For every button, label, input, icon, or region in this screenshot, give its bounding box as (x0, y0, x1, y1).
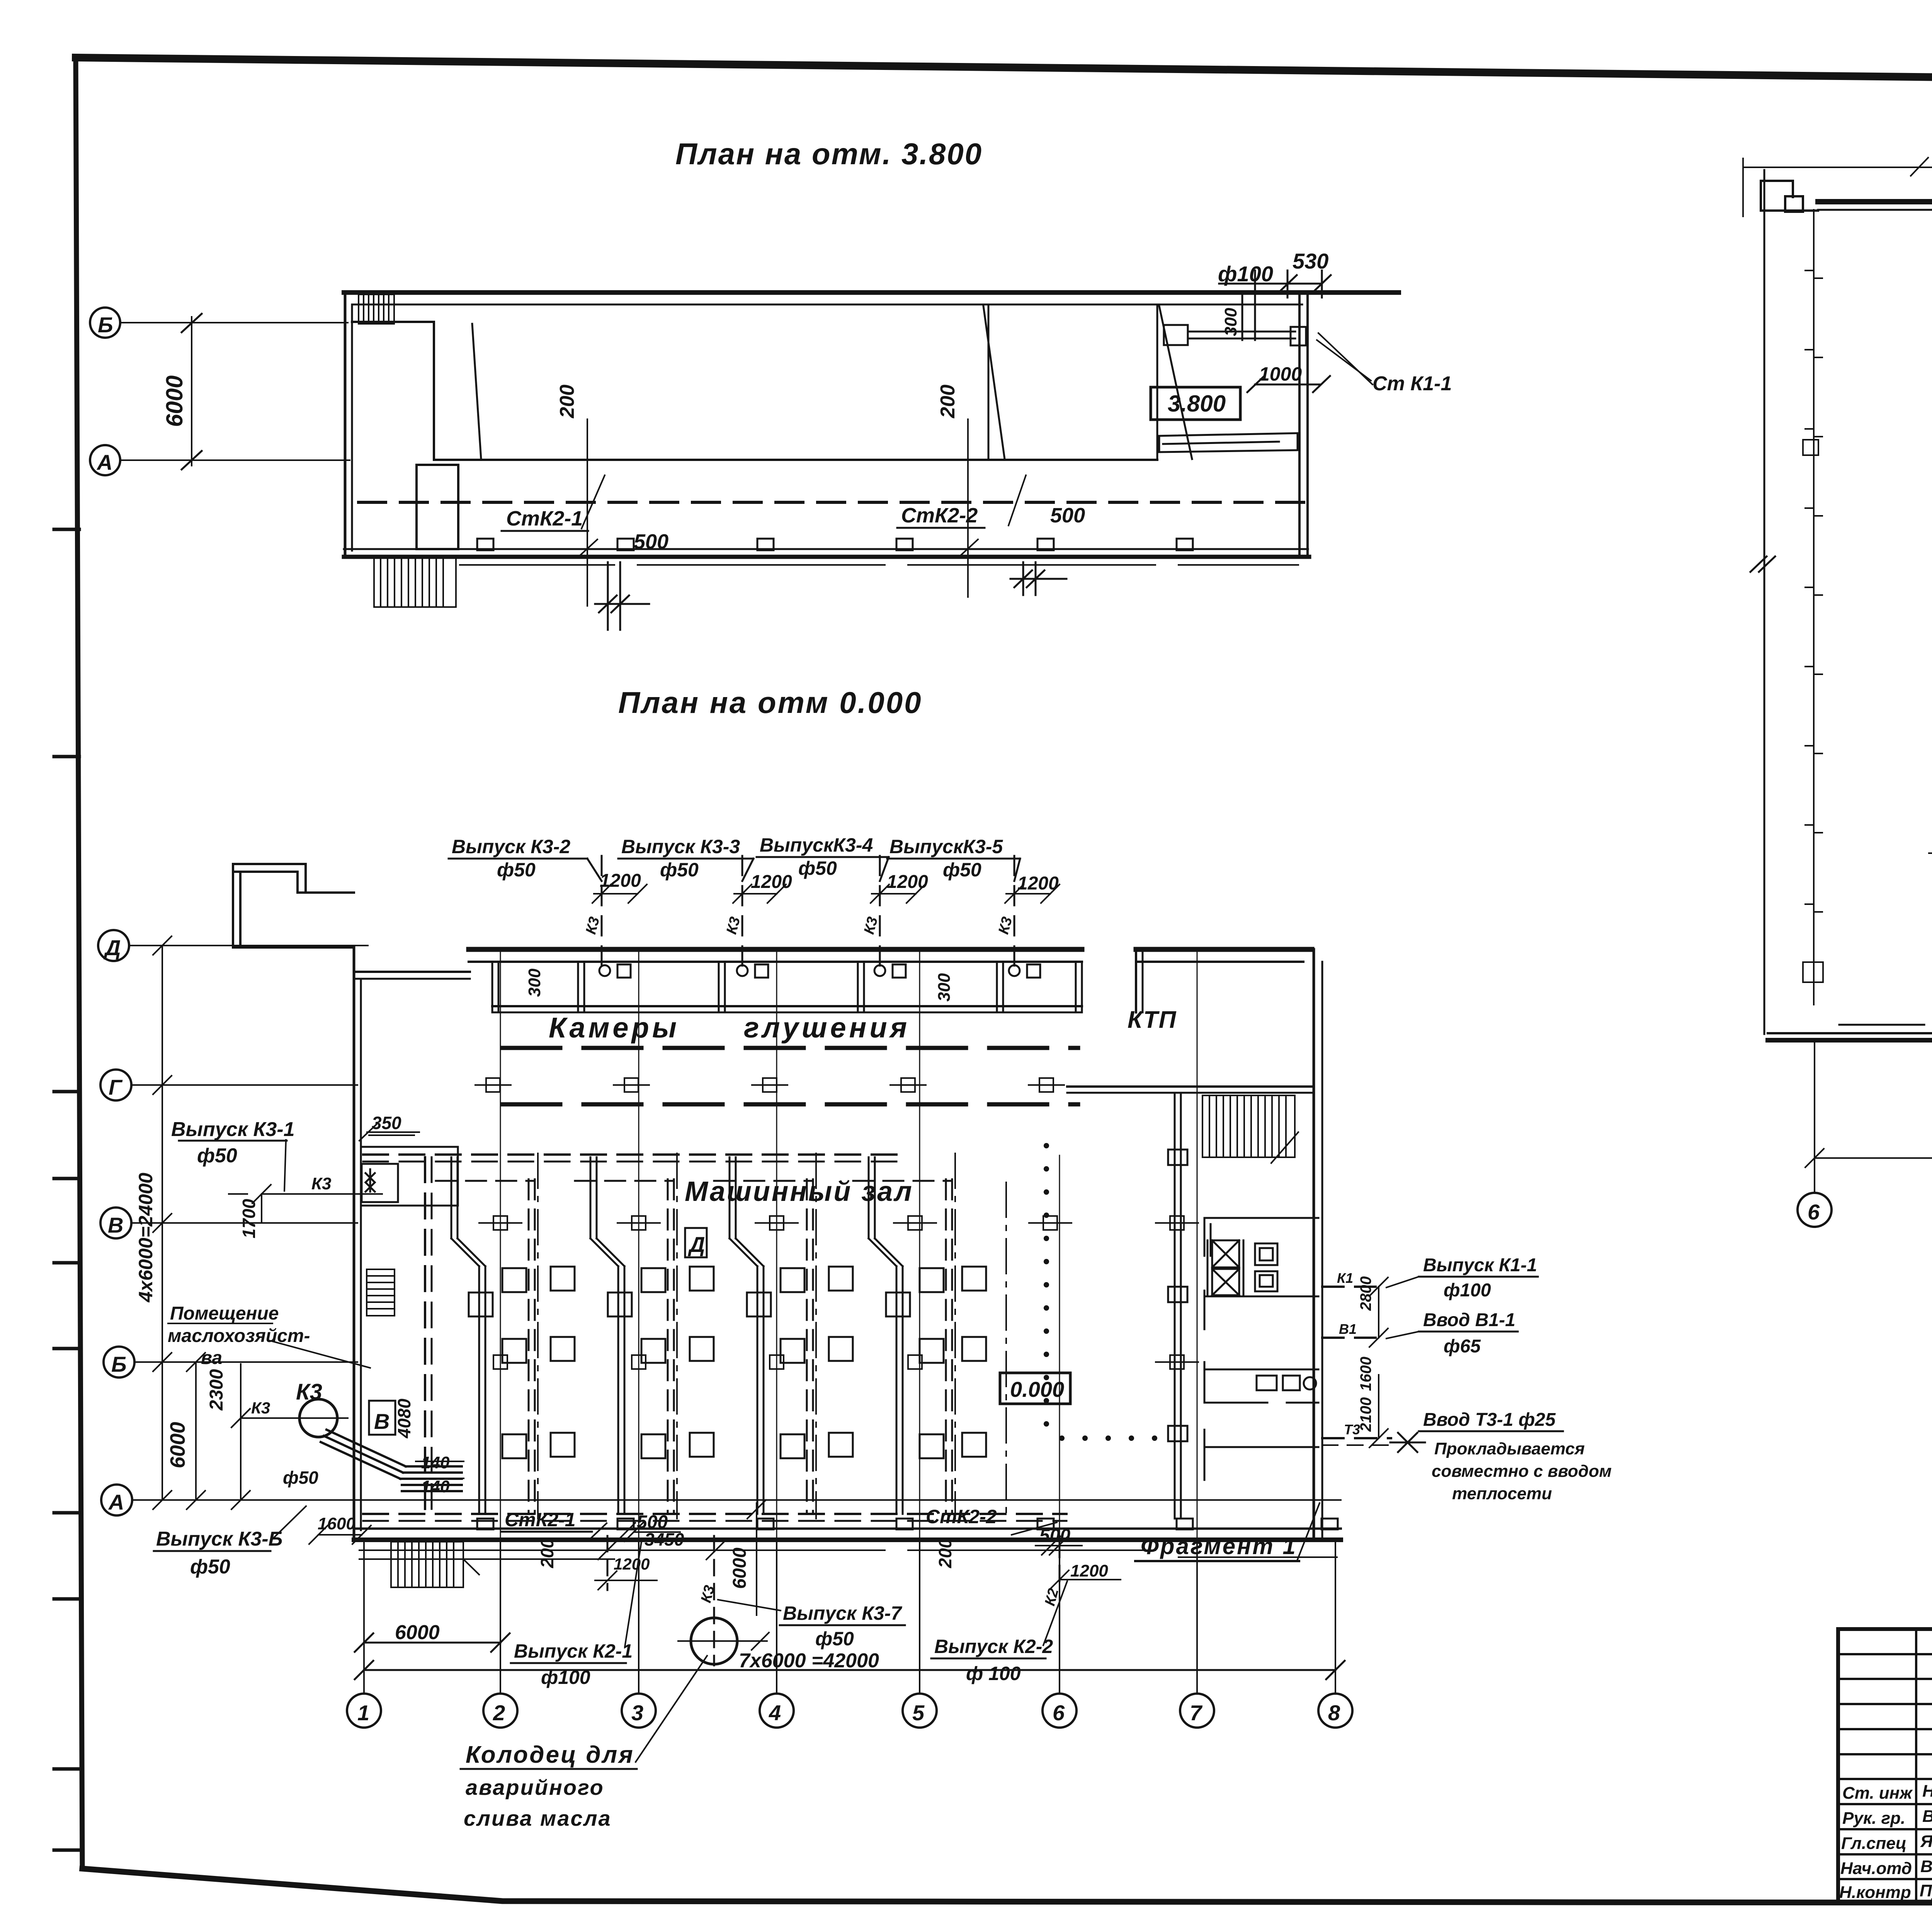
silencer dashes row1 (502, 1046, 1078, 1050)
svg-text:Камеры: Камеры (549, 1012, 680, 1044)
dim marks right of KTP (1369, 1277, 1388, 1447)
svg-text:Выпуск К3-1: Выпуск К3-1 (171, 1118, 295, 1141)
silencer dashes row2 (502, 1102, 1078, 1107)
svg-text:200: 200 (537, 1538, 557, 1568)
wall left (344, 293, 347, 556)
chamber partitions (492, 962, 1082, 1012)
oil room walls (361, 1147, 458, 1206)
svg-text:СтК2-1: СтК2-1 (505, 1509, 576, 1531)
svg-text:ВыпускК3-5: ВыпускК3-5 (889, 836, 1003, 857)
dim 500 no1 (595, 562, 649, 630)
footing strip (359, 1550, 1337, 1559)
axis lines through hall 2-7 (500, 951, 1197, 1540)
underline vypusk K3-B (154, 1550, 270, 1552)
svg-text:ф50: ф50 (815, 1628, 854, 1650)
svg-text:ф100: ф100 (1444, 1280, 1491, 1301)
dim ticks 1200 top row (592, 884, 1060, 903)
leader vypusk K3-B (272, 1506, 306, 1539)
inner wall horizontal (434, 459, 1157, 461)
texts title block (1839, 1503, 1932, 1932)
svg-text:1200: 1200 (600, 871, 641, 891)
chambers inner wall (492, 1005, 1082, 1007)
svg-text:530: 530 (1293, 249, 1328, 273)
unit centrelines dash-dot (538, 1153, 1006, 1519)
underline СтК2-2 (897, 527, 985, 529)
column marks axis В (479, 1216, 1198, 1230)
dashed centre line (359, 501, 1305, 504)
bottom wall columns (477, 1519, 1338, 1529)
svg-text:Колодец для: Колодец для (466, 1742, 634, 1768)
svg-text:1700: 1700 (239, 1199, 259, 1238)
label box Д (685, 1228, 707, 1257)
svg-text:Помещение: Помещение (170, 1303, 279, 1324)
compressor unit 4 outline (869, 1157, 903, 1514)
dim 1200 bottom small (595, 1571, 657, 1590)
svg-text:Ясиновский: Ясиновский (1920, 1832, 1932, 1851)
dim line 7x6000=42000 (355, 1661, 1345, 1679)
vent duct long (1159, 433, 1298, 452)
left wall outer (354, 947, 354, 1540)
svg-text:Рук. гр.: Рук. гр. (1842, 1809, 1905, 1828)
column marks axis Б (493, 1355, 1198, 1369)
wall right (1298, 294, 1301, 557)
machine hall top dashed wall (363, 1153, 896, 1156)
dim line 6000 vertical (191, 317, 192, 466)
K3 axis line (231, 1409, 348, 1427)
foundation pad squares unit2 (608, 1267, 714, 1458)
underline StK2-1 bottom (501, 1531, 592, 1533)
svg-text:ф 100: ф 100 (966, 1663, 1021, 1684)
svg-text:Пундиков: Пундиков (1920, 1881, 1932, 1900)
svg-text:Ст К1-1: Ст К1-1 (1372, 372, 1452, 395)
label box В (369, 1401, 395, 1435)
underline vypusk K3-7 (780, 1624, 905, 1626)
svg-text:К3: К3 (296, 1379, 322, 1405)
riser K2-2 dashed (1059, 1542, 1061, 1588)
chambers top wall (469, 947, 1082, 952)
svg-text:Гл.спец: Гл.спец (1841, 1834, 1906, 1853)
svg-text:1200: 1200 (1070, 1561, 1108, 1580)
axis circle Б (104, 1347, 134, 1378)
bottom wall А outer (354, 1527, 1341, 1530)
bottom axis circles 1-8 (347, 1694, 1352, 1728)
axis line А (120, 459, 350, 461)
texts plan0000 (104, 685, 1612, 1830)
svg-text:500: 500 (634, 530, 668, 553)
dim 1200 right (1050, 1570, 1121, 1589)
axis circle В (100, 1207, 131, 1238)
leader StK2-1 (590, 1523, 607, 1539)
svg-text:6000: 6000 (166, 1422, 189, 1468)
underline fragment1 (1135, 1560, 1299, 1562)
top dimension line (1743, 158, 1932, 216)
leader fragment1 (1298, 1503, 1320, 1560)
B1 dashed stub right (1322, 1337, 1376, 1339)
svg-text:ф50: ф50 (197, 1145, 237, 1167)
elevation box 3.800 (1151, 387, 1240, 420)
svg-text:4080: 4080 (394, 1398, 414, 1439)
unit foundation dashed outlines (436, 1179, 952, 1514)
T3 dashed stub right (1322, 1437, 1391, 1439)
svg-text:6: 6 (1808, 1200, 1820, 1224)
svg-text:1000: 1000 (1259, 363, 1302, 385)
svg-text:Фрагмент 1: Фрагмент 1 (1141, 1533, 1297, 1559)
break line diagonal 3 (1159, 306, 1192, 459)
svg-text:ф100: ф100 (1218, 262, 1273, 286)
svg-text:Ввод Т3-1 ф25: Ввод Т3-1 ф25 (1423, 1410, 1556, 1430)
break line diagonal 1 (472, 324, 481, 459)
dim line 6000 + 2300 verticals left (187, 1353, 250, 1509)
svg-text:500: 500 (1039, 1526, 1070, 1546)
svg-text:маслохозяйст-: маслохозяйст- (168, 1326, 310, 1346)
foundation pad squares unit4 (886, 1267, 986, 1458)
bottom wall fragment (1768, 1032, 1932, 1034)
stems to circles (1815, 1043, 1932, 1193)
axis line Г (131, 1084, 357, 1086)
svg-text:Т3: Т3 (1344, 1422, 1360, 1437)
compressor unit 3 outline (730, 1157, 764, 1514)
svg-text:КТП: КТП (1128, 1007, 1177, 1033)
leader СтК1-1 (1317, 340, 1371, 381)
svg-text:140: 140 (421, 1477, 450, 1496)
top-left protrusion (233, 864, 354, 947)
svg-text:2300: 2300 (206, 1369, 227, 1411)
top-left corner detail (1761, 181, 1818, 212)
underline vypusk K2-1 (511, 1662, 626, 1664)
svg-text:1200: 1200 (614, 1555, 650, 1573)
axis line А long (132, 1499, 1341, 1501)
svg-text:6000: 6000 (162, 376, 187, 427)
axis line Б (120, 322, 348, 323)
svg-text:ва: ва (201, 1348, 222, 1368)
bottom wall columns (477, 539, 1193, 550)
svg-text:Волыков: Волыков (1922, 1807, 1932, 1826)
KTP stairs (1202, 1095, 1298, 1163)
left outer wall with ticks (1803, 210, 1823, 1005)
K3 manhole circle (299, 1399, 337, 1437)
dim 3450 (598, 1541, 725, 1560)
axis circle Д (98, 930, 129, 961)
left wall break mark (1750, 556, 1767, 572)
texts fragment (1808, 117, 1932, 1224)
svg-text:Выпуск К2-1: Выпуск К2-1 (514, 1640, 633, 1662)
underline vvod T3-1 right (1419, 1430, 1563, 1432)
svg-text:6000: 6000 (395, 1621, 440, 1644)
svg-text:5: 5 (912, 1701, 925, 1725)
vert dim 6000 near manhole (747, 1500, 766, 1615)
stamp outer (1838, 1629, 1932, 1902)
svg-text:6000: 6000 (730, 1548, 750, 1589)
svg-text:слива масла: слива масла (464, 1806, 612, 1830)
underline teplovoy (1929, 852, 1932, 854)
column marks axis Г (475, 1078, 1064, 1092)
stamp left grid (1838, 1629, 1932, 1902)
svg-text:300: 300 (935, 973, 954, 1002)
svg-text:План на отм. 3.800: План на отм. 3.800 (675, 137, 983, 171)
svg-text:Нач.отд: Нач.отд (1840, 1859, 1912, 1878)
dotted pipe line vertical (1044, 1143, 1157, 1441)
svg-text:6: 6 (1053, 1701, 1065, 1725)
svg-text:500: 500 (1050, 504, 1085, 527)
leader StK2-2 (1012, 1522, 1057, 1535)
svg-text:теплосети: теплосети (1452, 1484, 1552, 1503)
svg-text:Новик: Новик (1922, 1782, 1932, 1801)
T3 entry cross mark (1390, 1433, 1425, 1452)
svg-text:Д: Д (104, 935, 121, 960)
machine hall bottom dashed wall (363, 1513, 1066, 1515)
svg-text:2: 2 (493, 1701, 505, 1725)
top wall thick (1818, 199, 1932, 204)
texts plan3800 (96, 137, 1452, 553)
svg-text:ВыпускК3-4: ВыпускК3-4 (760, 834, 873, 856)
pipe double line right (1188, 331, 1295, 333)
svg-text:К1: К1 (1337, 1270, 1353, 1286)
vert dim 1700 line (261, 1194, 262, 1223)
svg-text:200: 200 (556, 384, 578, 418)
wall top inner (352, 304, 1302, 306)
axis line Б (134, 1361, 357, 1363)
svg-text:ф100: ф100 (541, 1667, 590, 1688)
dim 500 no2 (1010, 562, 1066, 595)
svg-text:Машинный зал: Машинный зал (685, 1176, 913, 1207)
svg-text:Верченко: Верченко (1920, 1857, 1932, 1876)
compressor unit 1 outline (451, 1157, 485, 1514)
svg-text:А: А (96, 450, 112, 474)
bottom left corner posts (1839, 1016, 1932, 1033)
svg-text:СтК2-1: СтК2-1 (506, 507, 583, 530)
svg-text:4: 4 (769, 1701, 781, 1725)
KTP column line axis7 (1168, 1093, 1187, 1519)
Г axis wall to KTP (1067, 1085, 1314, 1088)
lift shafts with X (1207, 1240, 1243, 1296)
underline СтК2-1 (502, 530, 588, 532)
dim 1000 ticks (1247, 376, 1330, 392)
axis circle Г (100, 1070, 131, 1100)
inner wall vertical right (1156, 305, 1158, 460)
svg-text:А: А (108, 1490, 124, 1514)
inner wall vertical (433, 322, 435, 460)
dim 1600 (309, 1526, 371, 1544)
underline kolodec (461, 1768, 637, 1770)
leader vypusk K1-1 right (1386, 1277, 1419, 1287)
sanitary fixtures (1255, 1243, 1316, 1390)
stairs bottom left (374, 557, 456, 607)
svg-text:ф50: ф50 (190, 1556, 230, 1578)
svg-text:300: 300 (525, 968, 544, 997)
stairs top left (359, 294, 394, 324)
svg-text:ф50: ф50 (497, 859, 536, 881)
svg-text:1200: 1200 (1017, 873, 1059, 894)
svg-text:В: В (374, 1409, 389, 1434)
svg-text:План на отм 0.000: План на отм 0.000 (618, 685, 922, 719)
KTP top wall segment (1136, 947, 1312, 952)
bottom circles 6 7 8 (1798, 1193, 1832, 1227)
underline vvod B1-1 right (1419, 1331, 1518, 1333)
leader vypusk K3-1 (284, 1140, 286, 1191)
svg-text:Выпуск К2-2: Выпуск К2-2 (934, 1636, 1053, 1657)
svg-text:совместно с вводом: совместно с вводом (1432, 1462, 1612, 1481)
wall bottom (344, 548, 1308, 550)
KTP room walls (1204, 1218, 1318, 1480)
dim 500 mid (617, 1523, 680, 1541)
dim ticks ф100 530 (1219, 270, 1331, 298)
wall top outer (344, 290, 1399, 295)
inner wall vertical mid (988, 305, 990, 460)
leader vypusk K3-7 (718, 1600, 781, 1611)
svg-text:ф50: ф50 (660, 859, 699, 881)
inner wall step left (352, 321, 434, 323)
riser drop pipe (1242, 294, 1243, 340)
dim ticks 140 (416, 1461, 464, 1478)
hall left inner dashed wall (424, 1157, 426, 1514)
leader vypusk K2-1 (625, 1542, 641, 1647)
underline vypusk K2-2 (931, 1658, 1046, 1660)
K3 drain pipes (321, 1430, 462, 1491)
svg-text:1200: 1200 (751, 872, 792, 892)
axis line В (131, 1222, 357, 1224)
svg-text:глушения: глушения (744, 1012, 910, 1044)
svg-text:3450: 3450 (645, 1529, 684, 1549)
underline vypusk K3-1 (179, 1140, 287, 1142)
elevation box 0.000 plan (1000, 1373, 1070, 1404)
underline pomeschenie (168, 1323, 272, 1324)
axis circle А (90, 445, 120, 475)
underline StK2-2 bottom (923, 1528, 1013, 1530)
svg-text:Ст. инж: Ст. инж (1842, 1784, 1913, 1803)
svg-text:Б: Б (98, 313, 113, 337)
svg-text:Н.контр: Н.контр (1839, 1883, 1911, 1902)
svg-text:В1: В1 (1339, 1321, 1357, 1337)
svg-text:К3: К3 (251, 1399, 270, 1417)
leader vypusk K2-2 (1043, 1581, 1067, 1645)
svg-text:Выпуск К3-7: Выпуск К3-7 (783, 1602, 902, 1624)
svg-text:3.800: 3.800 (1168, 391, 1226, 417)
svg-text:1200: 1200 (887, 872, 928, 892)
svg-text:ф65: ф65 (1444, 1336, 1481, 1357)
break line diagonal 2 (983, 306, 1005, 459)
svg-text:4х6000=24000: 4х6000=24000 (135, 1173, 156, 1303)
dim line 200 no2 (959, 419, 978, 597)
svg-text:В: В (108, 1213, 123, 1237)
footing strip below bottom wall (460, 564, 1298, 566)
riser K3-2 dashed (602, 856, 1014, 966)
dim 500 right (1036, 1536, 1082, 1555)
svg-text:3: 3 (631, 1701, 643, 1725)
leader manhole label (636, 1656, 707, 1762)
svg-text:7х6000 =42000: 7х6000 =42000 (739, 1650, 879, 1672)
svg-text:Прокладывается: Прокладывается (1434, 1439, 1585, 1458)
lower protrusion room (417, 465, 458, 549)
svg-text:К3: К3 (311, 1174, 332, 1193)
svg-text:Д: Д (688, 1232, 705, 1257)
riser K3-7 dashed (713, 1536, 715, 1665)
svg-text:СтК2-2: СтК2-2 (926, 1506, 997, 1527)
right outer wall (1313, 949, 1315, 1540)
manhole emergency oil drain (691, 1618, 737, 1664)
svg-text:ф50: ф50 (798, 857, 837, 879)
KTP west connector wall (1135, 949, 1137, 1012)
leader СтК2-1 (582, 475, 605, 529)
leader pomeschenie (270, 1341, 370, 1368)
leader СтК2-2 (1009, 475, 1026, 526)
svg-text:аварийного: аварийного (466, 1775, 604, 1799)
svg-text:1600: 1600 (1357, 1357, 1374, 1391)
svg-text:Выпуск К3-3: Выпуск К3-3 (621, 836, 740, 857)
dim line 4x6000 vertical (153, 936, 172, 1509)
end cap (1291, 327, 1306, 345)
leader vvod B1-1 right (1386, 1332, 1419, 1338)
interior stair left (367, 1269, 395, 1316)
top connecting wall (354, 971, 470, 973)
svg-text:200: 200 (935, 1538, 955, 1568)
svg-text:200: 200 (937, 384, 959, 418)
dim line 6000 6000 fragment (1805, 1149, 1932, 1167)
svg-text:140: 140 (421, 1453, 450, 1472)
outside stair bottom left (391, 1542, 479, 1587)
manhole centre line (678, 1633, 769, 1650)
svg-text:Г: Г (109, 1075, 123, 1099)
svg-text:0.000: 0.000 (1010, 1377, 1064, 1401)
foundation pad squares unit1 (469, 1267, 575, 1458)
fold marks left margin (54, 529, 79, 1850)
outer dimension boundary line left (1764, 170, 1765, 1034)
svg-text:Выпуск К1-1: Выпуск К1-1 (1423, 1255, 1537, 1276)
dim line 6000 axis1-2 (355, 1633, 510, 1652)
svg-text:8: 8 (1328, 1701, 1340, 1725)
riser outlet circles on top wall (599, 964, 1040, 978)
svg-text:Ввод В1-1: Ввод В1-1 (1423, 1310, 1515, 1330)
foundation pad squares unit3 (747, 1267, 853, 1458)
riser StK2-1 dashed (607, 1536, 609, 1590)
svg-text:СтК2-2: СтК2-2 (901, 504, 978, 527)
svg-text:1: 1 (357, 1701, 369, 1725)
svg-text:ф50: ф50 (943, 859, 981, 881)
svg-text:7: 7 (1190, 1701, 1203, 1725)
svg-text:1600: 1600 (318, 1514, 355, 1533)
axis circle Б (90, 308, 120, 338)
underlines vypusk K3-2..5 (449, 857, 1020, 881)
svg-text:Выпуск К3-2: Выпуск К3-2 (452, 836, 570, 857)
svg-text:ф50: ф50 (283, 1468, 318, 1488)
axis line Д (129, 945, 368, 946)
svg-text:300: 300 (1221, 308, 1240, 336)
svg-text:Б: Б (111, 1352, 127, 1376)
dim 350 top left (359, 1113, 419, 1141)
underline vypusk K1-1 right (1419, 1276, 1538, 1278)
equipment block right (1164, 325, 1188, 345)
K1 dashed stub right (1322, 1286, 1376, 1288)
K3 dim line top (229, 1185, 382, 1203)
svg-text:350: 350 (372, 1113, 401, 1133)
svg-text:Выпуск К3-Б: Выпуск К3-Б (156, 1528, 282, 1550)
dim line 200 no1 (578, 419, 597, 606)
compressor unit 2 outline (590, 1157, 624, 1514)
axis circle А (101, 1485, 132, 1515)
axis stem lines to circles (364, 1542, 1335, 1694)
